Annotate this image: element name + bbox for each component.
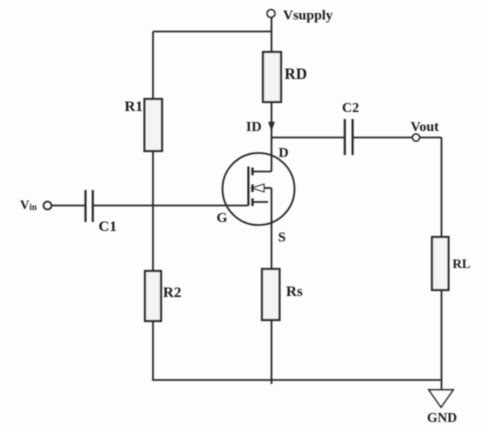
- wire source lead to Rs: [271, 188, 273, 269]
- transistor Q1 substrate line: [264, 187, 272, 189]
- transistor Q1 channel tick middle: [251, 184, 253, 192]
- svg-text:Rs: Rs: [286, 284, 303, 300]
- wire R1 to R2: [152, 151, 154, 271]
- wire bottom rail: [152, 379, 442, 381]
- svg-text:G: G: [217, 211, 228, 226]
- transistor Q1 channel tick drain: [251, 168, 253, 176]
- svg-text:S: S: [278, 231, 286, 246]
- wire Vin to C1: [51, 205, 84, 207]
- wire gate: [94, 205, 249, 207]
- resistor R1: [145, 99, 163, 151]
- svg-text:R2: R2: [163, 285, 181, 301]
- capacitor C2: [345, 119, 353, 155]
- terminal Vout: [413, 134, 420, 141]
- transistor Q1 MOSFET body circle: [223, 153, 295, 225]
- terminal Vsupply: [267, 10, 275, 18]
- current arrow ID: [268, 122, 275, 131]
- terminal Vin: [44, 202, 52, 210]
- svg-text:RD: RD: [285, 66, 308, 83]
- svg-text:C1: C1: [99, 219, 117, 235]
- transistor Q1 drain stub: [254, 171, 272, 173]
- transistor Q1 gate bar: [247, 167, 249, 206]
- wire R2 to bottom rail: [152, 321, 154, 380]
- transistor Q1 channel tick source: [251, 198, 253, 206]
- svg-text:ID: ID: [246, 120, 262, 135]
- wire Vsupply drop: [271, 18, 273, 52]
- svg-text:C2: C2: [342, 101, 359, 116]
- transistor Q1 substrate arrow: [252, 184, 264, 192]
- resistor RL: [432, 237, 449, 290]
- svg-text:Vout: Vout: [411, 120, 440, 135]
- svg-text:GND: GND: [427, 410, 457, 425]
- wire right rail to RL: [441, 138, 443, 238]
- transistor Q1 source stub: [254, 201, 269, 203]
- resistor RD: [263, 52, 281, 102]
- wire RL to bottom rail: [441, 290, 443, 380]
- wire left rail to R1: [152, 32, 154, 100]
- wire top rail: [153, 31, 272, 33]
- svg-text:Vsupply: Vsupply: [283, 9, 333, 24]
- svg-text:D: D: [279, 146, 289, 161]
- wire Rs to bottom rail: [271, 320, 273, 384]
- ground symbol: [429, 390, 453, 407]
- svg-text:R1: R1: [125, 99, 143, 115]
- svg-text:RL: RL: [453, 256, 471, 271]
- wire drain junction to C2: [272, 137, 345, 139]
- wire drain lead into MOSFET: [271, 138, 273, 172]
- wire C2 to right rail: [354, 137, 442, 139]
- resistor R2: [145, 271, 161, 321]
- resistor Rs: [262, 269, 280, 320]
- wire RD bottom to drain junction: [271, 102, 273, 138]
- capacitor C1: [86, 190, 93, 222]
- wire ground stub: [441, 380, 443, 390]
